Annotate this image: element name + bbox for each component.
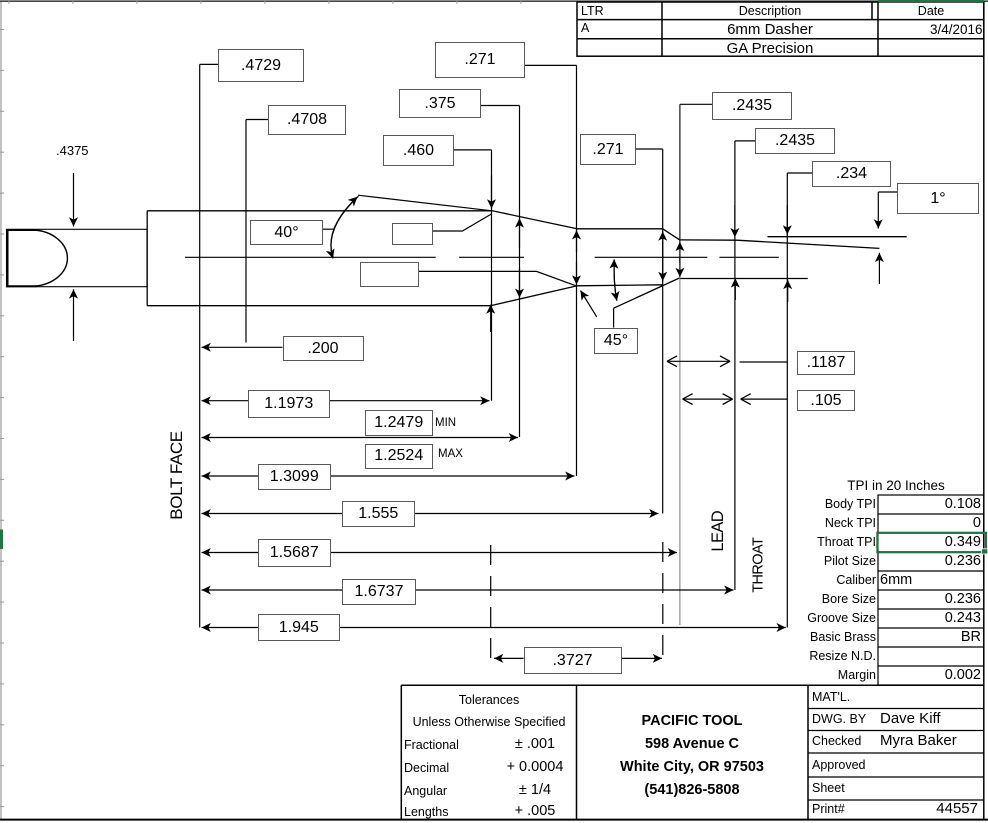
- tpi value grid: [878, 495, 984, 685]
- dim .271 right arrows: [662, 232, 664, 259]
- dim .105 open arrows: [683, 398, 733, 400]
- reamer shank rectangle: [7, 229, 148, 286]
- leader .105 with arrow: [741, 398, 788, 400]
- extension line x680 lower: [679, 276, 681, 625]
- extension line x246: [245, 120, 247, 343]
- leader .2435 first: [680, 103, 712, 105]
- centerline: [185, 256, 436, 258]
- dimension box .271 right: [580, 134, 636, 165]
- leader .4708: [246, 119, 268, 121]
- extension line x519: [519, 106, 521, 438]
- dim .234 arrows: [786, 205, 788, 235]
- dim 1 degree arrows: [877, 192, 879, 229]
- extension line x662: [662, 149, 664, 514]
- tpi label Body TPI: [776, 498, 876, 511]
- title block MATL: [812, 691, 850, 704]
- dimension box 1.2479: [365, 410, 434, 436]
- revision table text LTR: [581, 5, 604, 18]
- body bottom line: [147, 305, 490, 307]
- neck bottom line: [576, 285, 663, 286]
- leader 40 deg box: [321, 228, 334, 230]
- tpi value 0: [878, 516, 981, 531]
- tpi value 0.236 bore: [878, 592, 981, 607]
- tpi label Basic Brass: [776, 631, 876, 644]
- tpi label Caliber: [776, 574, 876, 587]
- excel selection throat tpi cell: [877, 533, 986, 552]
- left border row ticks: [0, 30, 4, 807]
- label MIN: [435, 418, 456, 430]
- sheet bottom border: [0, 819, 988, 821]
- dimension box .460: [383, 135, 454, 166]
- sheet right border: [983, 2, 985, 819]
- revision table text A: [581, 22, 589, 35]
- label LEAD vertical: [710, 501, 727, 561]
- extension line x735: [734, 141, 736, 590]
- label THROAT vertical: [751, 532, 766, 599]
- dim .460 arrows: [491, 175, 493, 209]
- dim .2435 arrows: [679, 242, 681, 263]
- company phone: [576, 783, 808, 798]
- leader .460: [452, 149, 492, 151]
- tpi label Pilot Size: [776, 555, 876, 568]
- leader .375: [479, 105, 520, 107]
- tpi label Bore Size: [776, 593, 876, 606]
- tolerances row Angular: [404, 785, 447, 798]
- dimension box 1.1973: [248, 390, 331, 418]
- title block Checked: [812, 735, 861, 748]
- leade taper line: [737, 240, 879, 248]
- dimension box .2435 second: [755, 128, 835, 154]
- dimension box 1 degree: [897, 183, 979, 214]
- dimension box 45 degree: [594, 328, 638, 354]
- 45 degree cone line: [614, 278, 680, 308]
- hidden box 2: [360, 262, 419, 287]
- dimension box .234: [812, 161, 891, 187]
- title block 44557: [878, 801, 978, 816]
- neck top line: [577, 228, 663, 230]
- title block Approved: [812, 759, 866, 772]
- dimension box 40 degree: [250, 220, 323, 245]
- extension line bolt face x200: [199, 64, 201, 627]
- tpi table title: [808, 479, 984, 493]
- leader .234: [787, 172, 812, 174]
- tolerances row Fractional: [404, 739, 459, 752]
- title block DWG BY: [812, 713, 866, 726]
- reamer body left edge: [146, 211, 148, 306]
- revision table text Description: [662, 5, 878, 18]
- dimension box .375: [399, 89, 481, 118]
- dim .4375 arrows: [73, 173, 75, 227]
- shank D-tang arc: [34, 230, 67, 286]
- leader 1 degree: [878, 191, 897, 193]
- excel selection green top: [878, 0, 984, 2]
- tpi label Groove Size: [776, 612, 876, 625]
- dashed extension x663: [662, 542, 664, 658]
- tpi value 0.002: [878, 668, 981, 683]
- revision table text date value: [878, 23, 983, 37]
- leader 45 deg arrow: [581, 291, 597, 317]
- dim .200: [202, 346, 283, 348]
- dim .3727: [494, 657, 524, 659]
- sheet left border: [0, 2, 2, 820]
- bore reference line: [768, 236, 907, 238]
- extension line x576: [576, 65, 578, 476]
- dimension box .1187: [797, 351, 855, 375]
- arc 45 deg: [614, 260, 617, 301]
- dimension box .4729: [218, 49, 304, 82]
- tpi value 0.236: [878, 554, 981, 569]
- dimension box 1.555: [342, 501, 415, 527]
- extension line x491: [491, 150, 493, 401]
- dim 1.6737: [202, 589, 401, 591]
- tolerances row Lengths: [404, 806, 448, 819]
- leader hidden box 1: [431, 214, 492, 231]
- tpi label Margin: [776, 669, 876, 682]
- title block Sheet: [812, 782, 845, 795]
- excel selection green left: [0, 530, 3, 550]
- dim 1.5687: [202, 552, 401, 554]
- company address 1: [576, 737, 808, 752]
- dimension box .2435 first: [712, 92, 792, 120]
- dashed extension x490: [490, 545, 492, 658]
- leader hidden box 2: [417, 271, 576, 285]
- shank D-tang flat segments: [7, 229, 38, 231]
- neck-throat step top: [663, 229, 680, 240]
- dim .375 arrows: [519, 218, 521, 248]
- leader .2435 second: [735, 140, 755, 142]
- leader 40 deg slant: [358, 195, 492, 211]
- company name: [576, 714, 808, 729]
- dimension box 1.945: [258, 614, 341, 641]
- tpi label Resize N.D.: [776, 650, 876, 663]
- tpi value BR: [878, 630, 981, 645]
- tpi value 0.243: [878, 611, 981, 626]
- dimension box 1.2524: [365, 444, 434, 469]
- dimension box 1.5687: [258, 539, 332, 567]
- dimension box .3727: [524, 647, 622, 674]
- dimension box 1.3099: [258, 464, 332, 490]
- label BOLT FACE vertical: [168, 419, 185, 532]
- sheet top border: [0, 0, 988, 2]
- dim 1.555: [202, 513, 401, 515]
- tolerances title: [401, 694, 577, 707]
- revision table borders: [577, 2, 984, 56]
- dimension box .200: [283, 336, 364, 361]
- tolerances row Decimal: [404, 762, 449, 775]
- tpi value 0.108: [878, 497, 981, 512]
- dim .2435 second arrows: [734, 205, 736, 237]
- label MAX: [438, 449, 463, 461]
- dim .271 arrows: [576, 230, 578, 252]
- tpi label Neck TPI: [776, 517, 876, 530]
- dimension box .4708: [268, 105, 346, 135]
- leader .271 right: [634, 148, 663, 150]
- dimension box .105: [797, 390, 855, 411]
- throat bottom line: [680, 278, 808, 280]
- extension line x680 upper: [679, 104, 681, 243]
- throat top line: [680, 239, 737, 241]
- leader .4729: [200, 63, 218, 65]
- company address 2: [576, 760, 808, 775]
- dimension box .271 top: [435, 42, 525, 78]
- shoulder top line: [492, 211, 577, 229]
- top border column ticks: [9, 0, 521, 4]
- tpi value 6mm: [880, 573, 912, 588]
- title block Print#: [812, 803, 845, 816]
- revision table text GA Precision: [662, 41, 878, 56]
- revision table text Date: [878, 5, 984, 18]
- title block borders: [401, 684, 984, 686]
- label .4375: [56, 144, 89, 157]
- title block Myra Baker: [880, 733, 957, 748]
- dim 1.3099: [202, 475, 401, 477]
- dim 1.945: [202, 627, 401, 629]
- shoulder bottom line: [491, 286, 577, 306]
- tpi label Throat TPI: [776, 536, 876, 549]
- tolerances subtitle: [401, 716, 577, 729]
- extension line x787: [786, 173, 788, 628]
- leader .271 top: [523, 64, 577, 66]
- revision table text 6mm Dasher: [662, 22, 878, 37]
- dim 1.2479 1.2524: [202, 437, 301, 439]
- leader .1187: [740, 361, 788, 363]
- title block Dave Kiff: [880, 711, 941, 726]
- body top line: [147, 210, 492, 212]
- dimension box 1.6737: [342, 579, 416, 605]
- leader 45 deg box vertical: [613, 308, 615, 327]
- hidden box 1: [392, 223, 433, 245]
- tpi value 0.349: [878, 535, 981, 550]
- dim 1.1973: [202, 400, 301, 402]
- dim .1187 open arrows: [667, 360, 730, 362]
- arc 40 deg: [331, 196, 359, 258]
